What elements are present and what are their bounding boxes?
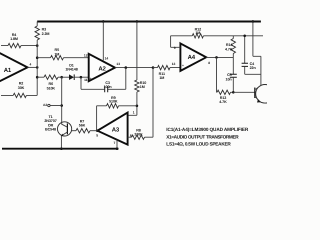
node junction A4out-R13	[215, 56, 218, 59]
op-amp A3 (points left)	[97, 113, 127, 145]
svg-text:2.2M: 2.2M	[42, 32, 50, 36]
svg-text:13: 13	[172, 62, 176, 66]
node junction pin7-rail	[116, 147, 119, 150]
svg-text:510K: 510K	[109, 99, 118, 103]
svg-text:1N4148: 1N4148	[65, 68, 77, 72]
svg-text:1: 1	[133, 111, 135, 115]
svg-text:9: 9	[174, 46, 176, 50]
op-amp A4	[180, 43, 206, 71]
wire rail right drop to output transistor	[253, 22, 261, 86]
resistor R6	[37, 76, 62, 78]
node junction C5-R13	[232, 91, 235, 94]
resistor R11	[153, 67, 180, 69]
svg-text:11: 11	[84, 78, 88, 82]
wire bottom ground rail	[2, 148, 119, 150]
wire A2 output pin 13	[115, 67, 153, 69]
node junction R12wire-C4	[243, 35, 246, 38]
node junction A1 output	[36, 66, 39, 69]
resistor R13	[217, 57, 234, 92]
transistor T1	[58, 122, 72, 136]
resistor R3	[36, 22, 38, 78]
svg-text:IC1(A1-A4)=LM3900 QUAD AMPLIFI: IC1(A1-A4)=LM3900 QUAD AMPLIFIER	[166, 127, 249, 132]
node junction rail-right drop	[252, 20, 255, 23]
node junction D1-T1 collector	[60, 76, 63, 79]
resistor R4	[1, 45, 37, 47]
svg-text:R14: R14	[226, 43, 234, 47]
wire A4 output pin 8	[206, 56, 233, 58]
node junction rail-pin14	[102, 20, 105, 23]
svg-text:1M: 1M	[54, 52, 59, 56]
capacitor C5 10n	[232, 57, 234, 74]
svg-text:4.7K: 4.7K	[219, 100, 227, 104]
node junction A1out-R6	[36, 76, 39, 79]
svg-text:56K: 56K	[79, 124, 86, 128]
resistor R2	[1, 77, 37, 95]
resistor R12 feedback	[171, 35, 263, 37]
wire A4 pin 9 feedback stub	[171, 36, 181, 48]
svg-text:4: 4	[30, 63, 32, 67]
svg-text:4.7K: 4.7K	[225, 47, 233, 51]
svg-text:1M: 1M	[159, 76, 164, 80]
wire A1 output pin 4	[28, 66, 38, 68]
wire R10 from rail	[128, 22, 137, 116]
diode D1 1N4148	[62, 76, 69, 78]
resistor R10	[135, 80, 139, 92]
wire pin 14 supply drop	[102, 22, 104, 61]
svg-text:X1=AUDIO OUTPUT TRANSFORMER: X1=AUDIO OUTPUT TRANSFORMER	[166, 134, 239, 139]
svg-text:+: +	[182, 63, 184, 67]
capacitor C4 22n	[244, 36, 246, 63]
svg-text:LS1=4Ω, 0.5W LOUD SPEAKER: LS1=4Ω, 0.5W LOUD SPEAKER	[166, 142, 231, 147]
svg-text:1M: 1M	[195, 31, 200, 35]
wire top supply rail	[37, 21, 261, 23]
resistor R9 feedback	[97, 106, 137, 131]
node terminal A2	[48, 104, 50, 106]
svg-text:30K: 30K	[18, 86, 25, 90]
op-amp A1	[0, 48, 28, 87]
node junction rail-R10	[136, 20, 139, 23]
svg-text:BC548: BC548	[45, 128, 56, 132]
svg-text:A3: A3	[112, 127, 120, 134]
node junction R9-R10	[136, 105, 139, 108]
svg-text:13: 13	[116, 62, 120, 66]
svg-text:7: 7	[113, 141, 115, 145]
resistor R14	[232, 36, 234, 58]
svg-text:510K: 510K	[47, 86, 56, 90]
wire base drive	[233, 91, 255, 93]
capacitor C3 100n	[108, 68, 126, 90]
svg-text:14: 14	[105, 57, 109, 61]
svg-text:10n: 10n	[226, 77, 233, 81]
resistor R7	[90, 130, 97, 132]
svg-text:100n: 100n	[104, 85, 113, 89]
node junction A3 output	[96, 129, 99, 132]
resistor R5	[37, 57, 88, 59]
svg-text:A2: A2	[98, 65, 106, 72]
svg-text:22n: 22n	[250, 66, 257, 70]
svg-text:+: +	[90, 76, 92, 80]
op-amp A2	[89, 54, 115, 81]
svg-text:A1: A1	[4, 67, 12, 74]
node junction R4-R3	[36, 44, 39, 47]
node junction A2out-C3	[125, 66, 128, 69]
node junction A2 terminal	[60, 104, 63, 107]
node junction R3-R5	[36, 56, 39, 59]
transistor T2 output (clipped)	[256, 85, 275, 104]
svg-text:1.8M: 1.8M	[10, 37, 18, 41]
node junction D1-C3	[80, 76, 83, 79]
svg-text:1M: 1M	[140, 85, 145, 89]
svg-text:5: 5	[96, 134, 98, 138]
node junction T1 emitter-rail	[60, 147, 63, 150]
svg-text:12: 12	[84, 54, 88, 58]
svg-text:A2: A2	[43, 103, 47, 107]
wire T1 collector riser	[61, 77, 63, 122]
svg-text:330K: 330K	[134, 133, 143, 137]
wire A3 pin 7 ground	[116, 140, 118, 149]
svg-text:8: 8	[208, 61, 210, 65]
node junction A2out-down	[152, 66, 155, 69]
svg-text:A4: A4	[188, 54, 196, 61]
resistor R8	[128, 68, 153, 138]
